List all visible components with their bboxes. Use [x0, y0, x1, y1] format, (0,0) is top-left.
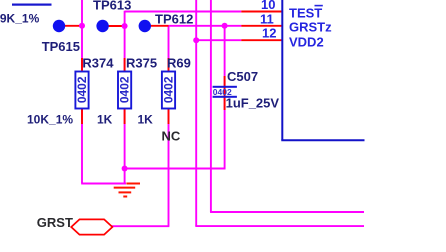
- svg-text:12: 12: [262, 26, 276, 41]
- IC body edge U?: [281, 0, 364, 140]
- svg-text:R375: R375: [126, 55, 157, 70]
- test point TP615: [53, 20, 65, 32]
- svg-text:TP612: TP612: [155, 12, 193, 27]
- junction at TP613 / R375 net: [122, 23, 128, 29]
- wire net GRSTz vertical at x=224.6 (C507 top): [224, 26, 226, 170]
- svg-text:C507: C507: [227, 69, 258, 84]
- svg-text:11: 11: [260, 11, 274, 26]
- svg-text:TP613: TP613: [93, 0, 131, 12]
- wire pin-11 GRSTz horizontal row: [169, 25, 242, 27]
- svg-text:R69: R69: [167, 55, 191, 70]
- svg-text:TEST: TEST: [289, 5, 322, 20]
- pin 10 red segment: [241, 11, 282, 13]
- svg-text:10: 10: [261, 0, 275, 12]
- capacitor C507 plates: [213, 86, 237, 98]
- pin red segment through C507: [224, 76, 226, 110]
- wire GND horizontal from R374 bottom: [81, 183, 126, 185]
- junction at TP615 / R374 net: [79, 23, 85, 29]
- pin stub TP615: [63, 25, 82, 27]
- test point TP612: [139, 20, 151, 32]
- ground symbol (GND): [114, 184, 140, 197]
- svg-text:0402: 0402: [75, 76, 89, 103]
- wire GRST horizontal to hexagon: [112, 225, 170, 227]
- svg-text:GRSTz: GRSTz: [289, 20, 332, 35]
- wire C507 bottom to GND horizontal: [125, 168, 226, 170]
- wire pass-through net bottom horizontal: [210, 211, 364, 213]
- svg-text:NC: NC: [162, 128, 181, 143]
- junction at R375 / GND branch: [122, 166, 128, 172]
- svg-text:1K: 1K: [138, 113, 154, 127]
- svg-text:TP615: TP615: [42, 39, 80, 54]
- resistor R374 body: [75, 72, 89, 109]
- wire pass-through net vertical at x=210.9: [210, 0, 212, 212]
- svg-text:VDD2: VDD2: [289, 34, 324, 49]
- svg-text:0402: 0402: [161, 76, 175, 103]
- off-page connector GRST hexagon: [71, 219, 112, 234]
- wire net TEST vertical at x=124.6 (R375 / TP613): [124, 11, 126, 185]
- svg-text:R374: R374: [82, 55, 114, 70]
- wire pin-12 VDD2 horizontal row: [196, 39, 241, 41]
- wire VDD2 bottom horizontal to right: [195, 225, 364, 227]
- svg-text:0402: 0402: [117, 76, 131, 103]
- svg-text:GRST: GRST: [37, 215, 73, 230]
- svg-text:10K_1%: 10K_1%: [27, 113, 73, 127]
- junction at VDD2 pin 12: [193, 37, 199, 43]
- resistor R373 (partial, cut off at top edge): [12, 4, 52, 6]
- wire net GRSTz vertical at x=168.5 (R69 / TP612): [168, 26, 170, 226]
- pin 12 red segment: [241, 39, 282, 41]
- svg-text:39K_1%: 39K_1%: [0, 11, 40, 25]
- overline for TEST: [315, 5, 323, 7]
- svg-text:1uF_25V: 1uF_25V: [226, 95, 280, 110]
- svg-text:1K: 1K: [97, 113, 113, 127]
- resistor R375 body: [117, 72, 131, 109]
- resistor R69 body: [161, 72, 175, 109]
- wire pin-10 TEST horizontal row: [125, 11, 242, 13]
- wire net VDD2 vertical at x=196.2: [195, 0, 197, 226]
- junction at C507 / GRSTz net: [222, 23, 228, 29]
- pin stub TP613: [107, 25, 125, 27]
- test point TP613: [96, 20, 108, 32]
- pin stub TP612: [149, 25, 169, 27]
- pin red segment through R374: [81, 58, 83, 124]
- pin red segment through R69: [168, 58, 170, 124]
- pin 11 red segment: [241, 25, 282, 27]
- wire net TEST vertical at x=82: [81, 0, 83, 184]
- pin red segment through R375: [124, 58, 126, 124]
